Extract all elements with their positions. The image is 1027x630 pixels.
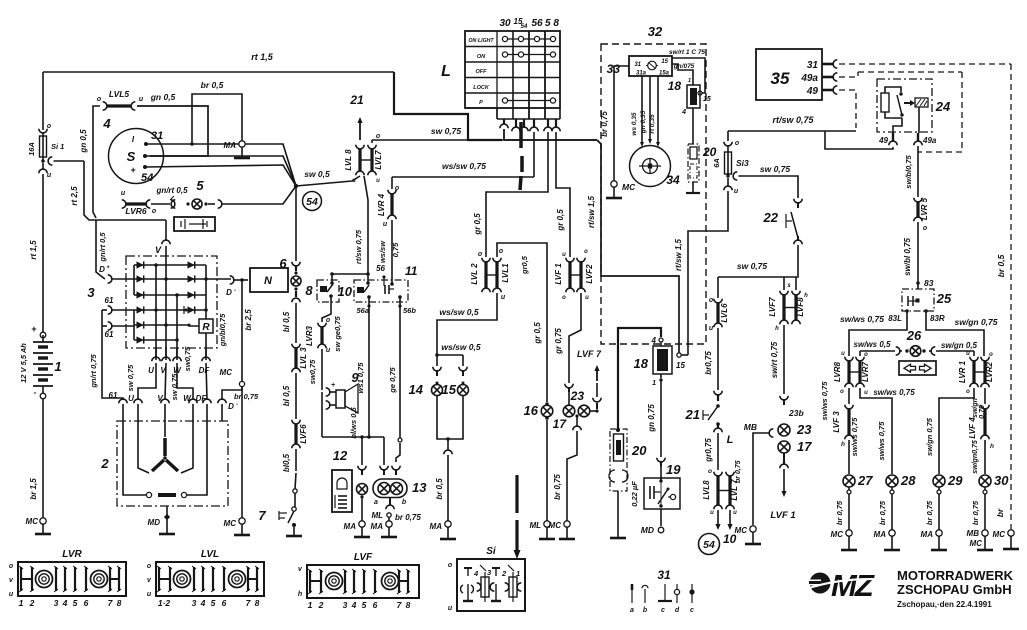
svg-text:S: S [127, 149, 136, 164]
node label 54 circle [303, 192, 322, 211]
ground MC right edge [1003, 536, 1019, 549]
svg-text:bl/ws 0,5: bl/ws 0,5 [349, 407, 358, 439]
wire LVL1 bottom to lamps 14 15 [437, 293, 497, 355]
connector LVR5 [914, 197, 929, 232]
svg-text:15: 15 [661, 59, 668, 65]
svg-text:s: s [787, 283, 791, 289]
wire right bus [204, 265, 208, 319]
ground MD [159, 526, 175, 534]
diode D6 [137, 336, 144, 343]
svg-text:o: o [966, 389, 970, 395]
svg-text:o: o [47, 123, 52, 130]
label sw 0,75 mid [183, 346, 192, 371]
svg-text:Si: Si [486, 546, 496, 557]
svg-text:h: h [841, 441, 845, 448]
headlight unit 12 [332, 448, 352, 512]
svg-text:LVL1: LVL1 [501, 263, 510, 283]
wire 61 feed [89, 310, 123, 400]
svg-text:sw/ws 0,75: sw/ws 0,75 [850, 417, 859, 457]
svg-text:MC: MC [26, 517, 39, 526]
switch pin 56 [530, 119, 538, 131]
connector LVL5 [97, 89, 144, 110]
svg-text:83L: 83L [888, 314, 902, 323]
front indicator lamp 27 [835, 473, 873, 530]
svg-text:4: 4 [351, 600, 357, 610]
relay 24 load element [915, 98, 928, 133]
wire W bus [175, 293, 179, 360]
legend b socket [642, 585, 648, 614]
tail lamp 17 rear [778, 439, 812, 454]
svg-text:ZSCHOPAU GmbH: ZSCHOPAU GmbH [897, 582, 1012, 597]
svg-text:br 0,75: br 0,75 [878, 500, 887, 525]
svg-text:4: 4 [200, 598, 206, 608]
svg-text:bl0,5: bl0,5 [282, 453, 291, 472]
svg-text:61: 61 [105, 330, 114, 339]
harness thick mark [520, 122, 522, 190]
svg-text:LVR2: LVR2 [985, 361, 994, 382]
svg-text:7: 7 [397, 600, 403, 610]
ground MC generator [234, 524, 250, 535]
wire row1 [134, 264, 206, 266]
suppressor 20 instruments [688, 144, 717, 182]
svg-text:D: D [99, 265, 105, 274]
svg-text:o: o [9, 563, 14, 570]
wire br 0,5 dashed right edge [995, 64, 1011, 529]
wire U bus [154, 263, 158, 360]
terminal MC lamps [549, 521, 571, 530]
svg-text:LVF 7: LVF 7 [577, 349, 602, 359]
turn signal arrows box [899, 361, 936, 375]
wire LVR1 to lamp 29 [925, 388, 974, 474]
ground suppressor [686, 182, 700, 193]
svg-text:br0,75: br0,75 [704, 351, 713, 375]
wire DF link [206, 363, 207, 399]
svg-text:ws/sw 0,5: ws/sw 0,5 [441, 342, 480, 352]
svg-text:16A: 16A [27, 142, 36, 156]
svg-text:U: U [148, 366, 154, 375]
svg-text:5: 5 [196, 178, 204, 193]
relay 24 contact [885, 95, 915, 118]
svg-text:u: u [501, 294, 506, 301]
svg-text:sw ge0,75: sw ge0,75 [333, 315, 342, 351]
connector LVR4 [377, 185, 400, 228]
svg-text:u: u [147, 591, 152, 598]
wire br 0,5 to MA [190, 80, 242, 146]
svg-text:4: 4 [681, 109, 686, 116]
svg-text:ge 0,75: ge 0,75 [388, 366, 397, 393]
svg-text:o: o [478, 251, 483, 258]
wire 56 drop [533, 132, 535, 140]
svg-text:P: P [479, 100, 483, 106]
wire ws1 0,75 from 56a [356, 304, 371, 438]
diode D10 field [184, 306, 195, 314]
switch pin 30 [500, 119, 508, 128]
wire switch 21 to LVL8 pair [704, 433, 734, 475]
svg-text:35: 35 [771, 69, 790, 88]
wire 33 pin31 to MC [600, 66, 629, 181]
wire contact S to junction [145, 156, 296, 186]
fuse Si3 [712, 131, 749, 195]
wire sw/ws 0,75 83L [840, 311, 907, 356]
wire gn/rt 0,5 down to D+ [96, 220, 107, 279]
wire thick link to coil pin 4 [618, 328, 661, 430]
svg-text:sw/gn 0,75: sw/gn 0,75 [925, 417, 934, 456]
terminal MC right edge [993, 530, 1015, 539]
svg-text:u: u [448, 605, 453, 612]
svg-text:c: c [690, 607, 694, 614]
svg-text:ML: ML [371, 511, 383, 520]
wire 49a dashed to relay box [839, 72, 962, 77]
node 61 lower [105, 322, 134, 339]
svg-text:sw/gn 0,75: sw/gn 0,75 [955, 317, 998, 327]
svg-text:MC: MC [970, 539, 983, 548]
svg-text:83: 83 [924, 278, 934, 288]
table row labels [468, 38, 494, 106]
light switch table L [441, 31, 560, 119]
svg-text:u: u [710, 510, 714, 516]
svg-text:o: o [499, 248, 504, 255]
svg-text:sw/ws 0,75: sw/ws 0,75 [873, 388, 915, 397]
svg-text:17: 17 [797, 439, 812, 454]
svg-text:2: 2 [100, 456, 109, 471]
svg-text:MC: MC [831, 530, 844, 539]
wire LVF3 to lamp 27 [848, 440, 850, 474]
svg-text:LVF: LVF [354, 552, 373, 563]
svg-text:gn/rt 0,5: gn/rt 0,5 [98, 232, 107, 263]
svg-text:o: o [376, 133, 381, 140]
svg-text:2: 2 [29, 598, 35, 608]
wire ws/sw 0,75 horizontal [392, 140, 534, 189]
svg-text:18: 18 [668, 79, 682, 93]
svg-text:u: u [734, 188, 739, 195]
connector block LVL [147, 549, 264, 608]
svg-text:N: N [264, 275, 273, 287]
ground MC lamps [559, 527, 575, 539]
svg-text:2: 2 [318, 600, 324, 610]
svg-text:a: a [374, 499, 378, 506]
svg-text:o: o [840, 389, 844, 395]
wire gn 0,5 LVL5 to switch S [137, 106, 208, 156]
pin W rectifier [173, 348, 182, 375]
front indicator lamp 29 [925, 473, 963, 530]
wire sw 0,5 junction to LVL8 [296, 169, 360, 186]
coil pin 1 [652, 374, 663, 387]
svg-text:49: 49 [806, 86, 819, 97]
svg-text:u: u [139, 96, 144, 103]
svg-text:29: 29 [947, 473, 963, 488]
ignition coil 18 [634, 346, 672, 374]
svg-text:4: 4 [651, 336, 657, 345]
ground suppressor 20 [610, 491, 626, 538]
svg-text:br 0,5: br 0,5 [996, 254, 1006, 277]
relay 24 box [877, 79, 951, 132]
wire row5 [134, 324, 189, 326]
svg-text:rt/sw 0,75: rt/sw 0,75 [354, 229, 363, 264]
connector block LVR [9, 549, 126, 608]
svg-text:-: - [234, 288, 236, 294]
svg-text:LVF 1: LVF 1 [554, 263, 563, 285]
svg-text:o: o [147, 563, 152, 570]
svg-text:56: 56 [376, 264, 385, 273]
pin 23b [780, 396, 804, 418]
svg-text:11: 11 [405, 264, 418, 278]
svg-text:bl 0,5: bl 0,5 [282, 311, 291, 332]
terminal ML [371, 511, 421, 522]
node V input [155, 220, 170, 255]
svg-text:6: 6 [222, 598, 227, 608]
ground MA lamp12 [354, 527, 370, 537]
table header 30 15/54 56 58 [499, 17, 559, 30]
svg-text:+: + [31, 324, 36, 334]
svg-text:gn 0,5: gn 0,5 [79, 129, 88, 154]
svg-text:gr 0,5: gr 0,5 [473, 213, 482, 236]
node MC junction [220, 368, 245, 387]
label sw 0,75 left [126, 364, 135, 392]
svg-text:24: 24 [935, 99, 951, 114]
svg-text:+: + [331, 382, 335, 389]
svg-text:LVF2: LVF2 [585, 264, 594, 284]
wire LVF4 to lamp 30 [972, 440, 985, 474]
wire fuse to battery [29, 174, 43, 332]
terminal MA brake lamps [430, 521, 452, 531]
ground MA lamp29 [931, 536, 947, 550]
fuse box Si [448, 546, 525, 612]
svg-text:20: 20 [702, 145, 717, 159]
harness arrow into Si [514, 475, 521, 559]
svg-text:sw/gn: sw/gn [972, 398, 979, 418]
svg-text:h: h [990, 443, 994, 450]
horn 9 [326, 370, 360, 413]
wire V bus [164, 246, 168, 360]
svg-text:sw0,75: sw0,75 [183, 346, 192, 371]
charge lamp 5 [171, 178, 222, 209]
svg-text:LVR6: LVR6 [125, 206, 147, 216]
contacts row ON-LIGHT [502, 36, 555, 41]
pin 49a relay [914, 133, 937, 145]
contacts row P [502, 98, 555, 103]
wire ws 0,35 [631, 76, 644, 147]
wire sw/gn 0,75 83R [926, 311, 998, 356]
ground MC lamp27 [841, 536, 857, 550]
svg-text:LVR 1: LVR 1 [958, 360, 967, 383]
pin 49a of 35 [822, 73, 837, 81]
svg-text:o: o [989, 352, 993, 358]
ground MA ignition [234, 147, 250, 158]
wire sw/bl 0,75 to 83 [903, 222, 918, 289]
terminal MA lamp12 [344, 521, 366, 531]
wire LVF2 to lamp 17 [554, 293, 581, 383]
ground MA flasher [381, 527, 397, 537]
svg-text:u: u [326, 347, 331, 354]
wire horn to flasher feed [322, 392, 384, 439]
wire LVR3 to horn [308, 349, 322, 390]
svg-text:MOTORRADWERK: MOTORRADWERK [897, 568, 1014, 583]
svg-text:h: h [804, 293, 808, 299]
wire sw 0,5 to switches [295, 185, 297, 187]
svg-text:1: 1 [19, 598, 24, 608]
svg-text:12: 12 [333, 448, 348, 463]
svg-text:rt/sw 1,5: rt/sw 1,5 [674, 238, 683, 271]
svg-text:u: u [352, 178, 356, 184]
wire LVR2 to LVF4 [972, 388, 986, 419]
wire rt 2,5 to regulator [54, 161, 97, 220]
connector LVL3 [292, 344, 308, 373]
stop lamp 14 [409, 367, 443, 397]
svg-text:1: 1 [688, 78, 691, 84]
svg-text:o: o [708, 468, 712, 475]
svg-text:MC: MC [224, 519, 237, 528]
svg-text:a: a [630, 607, 634, 614]
wire rt/sw 0,75 solid [728, 115, 893, 149]
svg-text:22: 22 [763, 210, 779, 225]
svg-text:u: u [709, 325, 714, 332]
node 54 circle lower [699, 532, 737, 555]
svg-text:1·2: 1·2 [158, 598, 171, 608]
wire gn 0,75 coil to breaker [647, 380, 661, 457]
wire br 1,5 battery to ground [29, 399, 43, 518]
svg-text:5: 5 [362, 600, 367, 610]
wire rt/sw 0,75 to switch 10 [354, 176, 368, 283]
wire MC junction down [241, 387, 243, 518]
wire lamp5 branch [221, 186, 296, 204]
tail lamp 16 [524, 402, 553, 420]
svg-text:gr0,75: gr0,75 [704, 438, 713, 463]
wire LVF6 to switch 7 [282, 449, 297, 507]
svg-text:4: 4 [102, 116, 111, 131]
svg-text:1: 1 [652, 380, 656, 387]
terminal MC lamp27 [831, 530, 853, 539]
svg-text:6: 6 [373, 600, 378, 610]
terminal MB lamp30 [967, 529, 989, 548]
svg-text:u: u [9, 591, 14, 598]
ignition coil 18 instruments [668, 78, 711, 116]
svg-text:31: 31 [634, 62, 641, 68]
wire V link [165, 363, 166, 399]
svg-text:ws 0,35: ws 0,35 [631, 112, 638, 136]
svg-text:br 0,75: br 0,75 [600, 111, 609, 137]
svg-text:1: 1 [308, 600, 313, 610]
label gn 0,5 [150, 92, 176, 102]
lamp 23 brake rear [570, 389, 590, 417]
svg-text:br 0,75: br 0,75 [735, 460, 742, 483]
wire 49 dashed down [839, 90, 856, 128]
svg-text:sw/rt 1 C 75: sw/rt 1 C 75 [669, 49, 706, 56]
pin 61 generator [119, 399, 127, 421]
svg-text:7: 7 [258, 508, 266, 523]
svg-text:sw/bl 0,75: sw/bl 0,75 [903, 238, 912, 276]
svg-text:5: 5 [211, 598, 216, 608]
pin V rectifier [160, 348, 170, 375]
svg-text:u: u [383, 221, 388, 228]
svg-text:83R: 83R [930, 314, 945, 323]
svg-text:sw0,75: sw0,75 [308, 359, 317, 384]
svg-text:54: 54 [141, 172, 153, 184]
svg-text:19: 19 [666, 462, 681, 477]
brake lamp 23 rear [778, 422, 812, 437]
svg-text:br 0,75: br 0,75 [553, 474, 562, 500]
svg-text:8: 8 [117, 598, 122, 608]
svg-text:LVR7: LVR7 [861, 361, 870, 382]
svg-text:ws/sw 0,5: ws/sw 0,5 [439, 307, 478, 317]
connector LVR3 [305, 315, 342, 354]
flasher lamps 13 [373, 437, 427, 506]
wire br 0,75 LVL6 down [704, 328, 718, 390]
wire sw/gn 0,5 [936, 341, 978, 356]
wire row6 [134, 339, 177, 341]
svg-text:23b: 23b [788, 408, 804, 418]
wire battery to fuse [42, 72, 44, 130]
label row 61 U [109, 391, 135, 403]
wire 31 dashed to br 0,5 [839, 63, 1011, 65]
diode D3 [137, 291, 144, 298]
node D+ [99, 265, 134, 283]
svg-text:gn/bl0,75: gn/bl0,75 [218, 313, 227, 347]
svg-text:MA: MA [371, 522, 384, 531]
wire MB to MC [744, 422, 774, 525]
svg-text:56a: 56a [356, 306, 369, 315]
ground MC center [745, 532, 761, 544]
ground MA brake lamps [440, 527, 456, 539]
node 61 upper [105, 296, 134, 314]
svg-text:15: 15 [676, 361, 685, 370]
svg-text:gn/rt 0,5: gn/rt 0,5 [155, 186, 188, 195]
svg-text:sw/ws 0,75: sw/ws 0,75 [877, 421, 886, 461]
svg-text:21: 21 [685, 407, 700, 422]
svg-text:gr 0,5: gr 0,5 [533, 322, 542, 345]
wire 54 to lamp 6 [295, 186, 297, 261]
battery symbol box [174, 217, 215, 231]
svg-text:12 V 5,5 Ah: 12 V 5,5 Ah [19, 343, 28, 383]
svg-text:o: o [562, 295, 566, 301]
svg-text:-: - [34, 388, 37, 397]
svg-text:D: D [228, 402, 234, 411]
svg-text:30: 30 [499, 18, 511, 29]
svg-text:OFF: OFF [476, 69, 488, 75]
terminal MD breaker [641, 509, 664, 535]
svg-text:sw/gn0,75: sw/gn0,75 [972, 440, 979, 474]
svg-text:d: d [675, 607, 680, 614]
svg-text:MD: MD [148, 518, 161, 527]
svg-text:L: L [441, 63, 451, 80]
svg-text:4: 4 [62, 598, 68, 608]
wire row4 [134, 309, 206, 311]
svg-text:0,22 µF: 0,22 µF [630, 481, 639, 507]
wire switch8 to LVR3 [322, 310, 331, 322]
svg-text:o: o [735, 140, 740, 147]
svg-text:b: b [402, 499, 407, 506]
svg-text:o: o [709, 297, 714, 304]
pin U generator [134, 399, 142, 421]
svg-text:3: 3 [343, 600, 348, 610]
diode D4 [137, 306, 144, 313]
svg-text:o: o [923, 225, 928, 232]
pin DF generator [203, 399, 211, 421]
terminal MA flasher [371, 521, 393, 531]
svg-text:br 0,5: br 0,5 [201, 80, 224, 90]
svg-text:sw/bl0,75: sw/bl0,75 [904, 155, 913, 189]
svg-text:49a: 49a [922, 136, 937, 145]
svg-text:14: 14 [409, 382, 424, 397]
wire sw/rt 1 C 75 [669, 49, 706, 95]
node 83L [888, 309, 909, 323]
svg-text:20: 20 [631, 443, 647, 458]
svg-text:LVF 1: LVF 1 [770, 510, 795, 521]
svg-text:3: 3 [54, 598, 59, 608]
svg-text:c: c [661, 607, 665, 614]
svg-text:sw 0,5: sw 0,5 [304, 169, 330, 179]
svg-text:16: 16 [524, 403, 539, 418]
svg-text:u: u [376, 178, 380, 184]
